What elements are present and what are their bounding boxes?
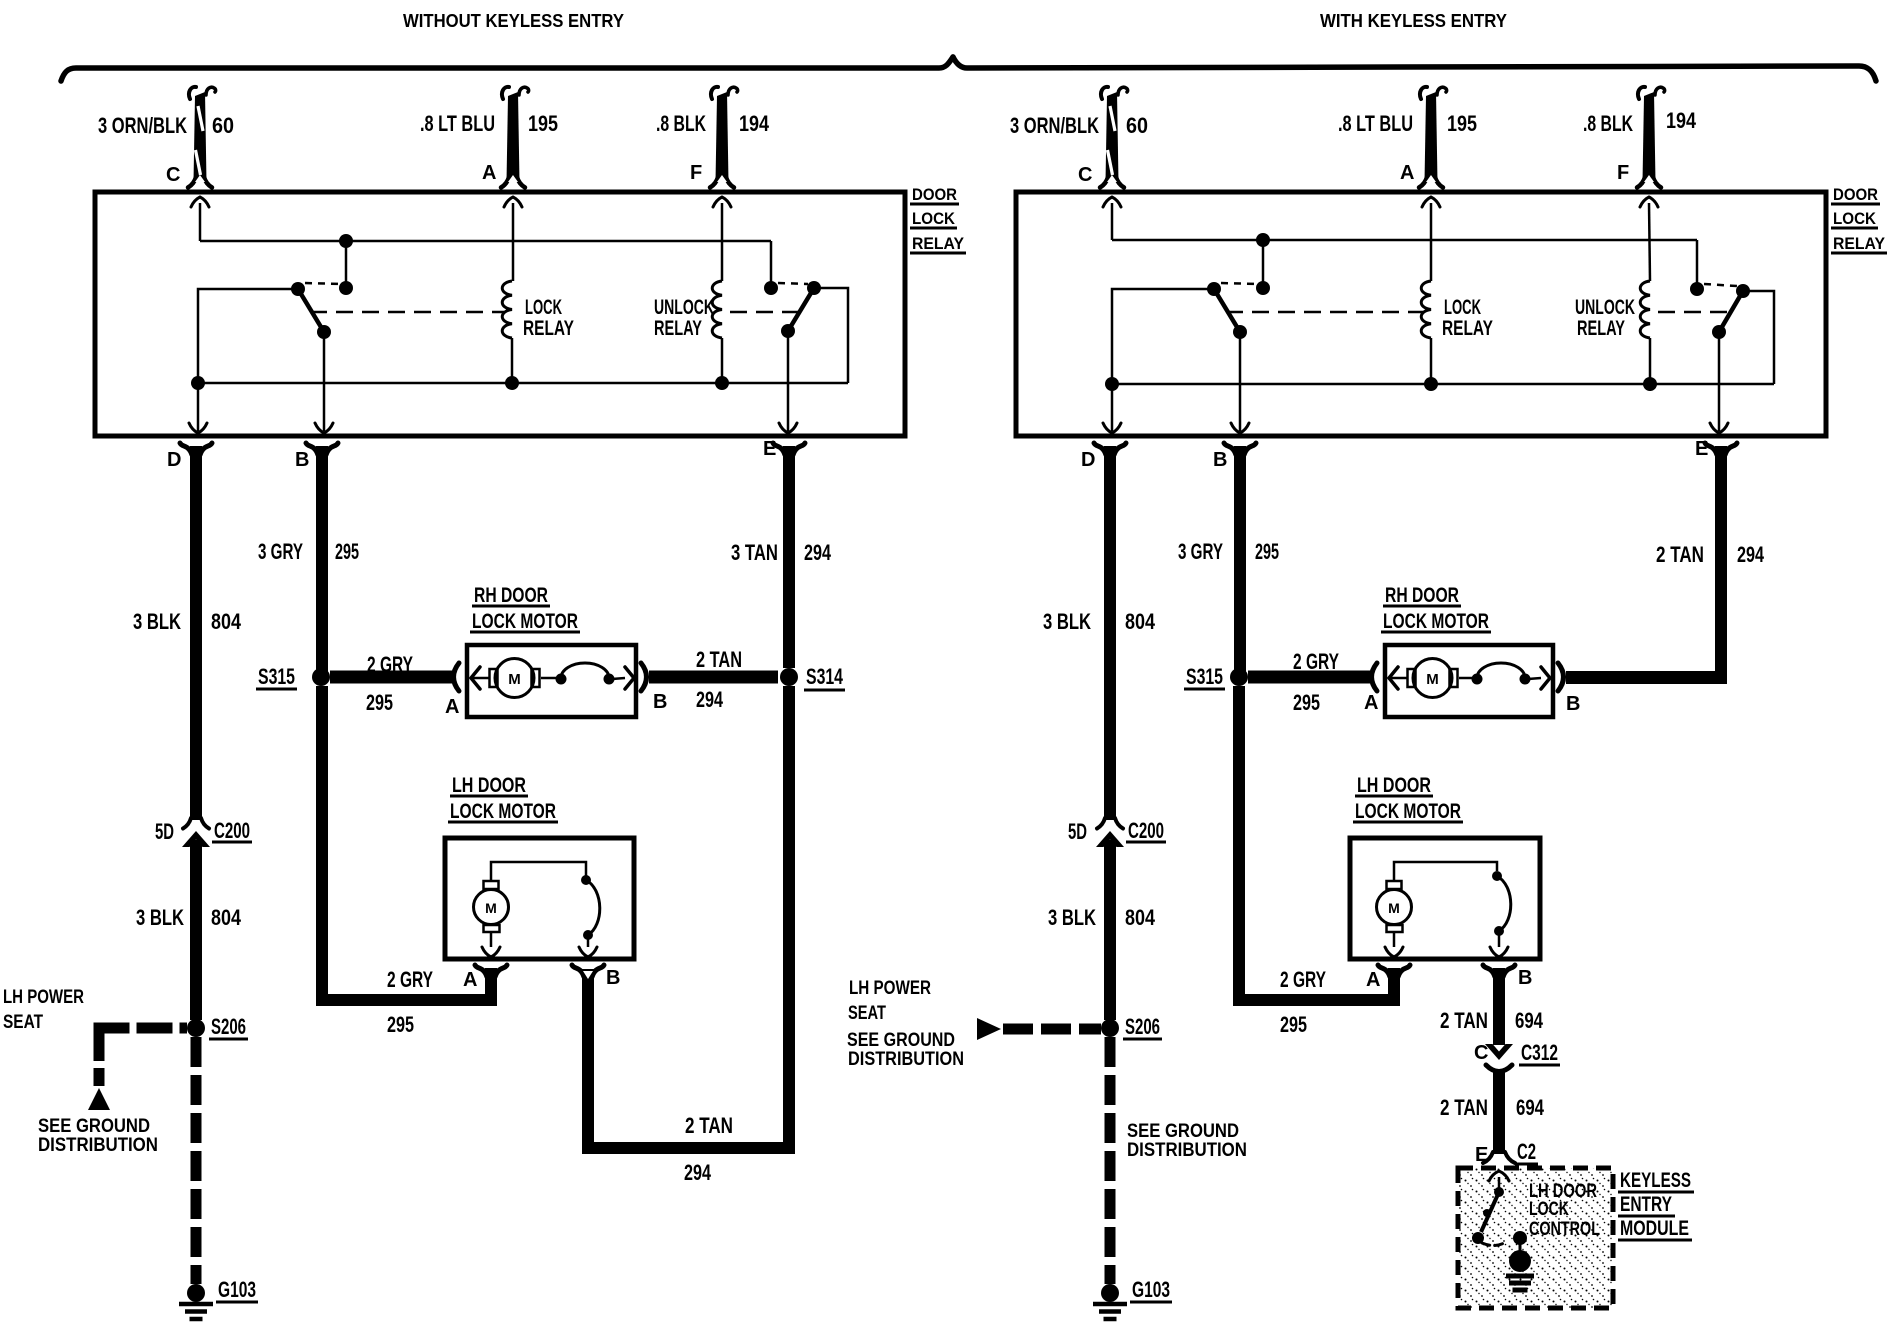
svg-text:LH POWER: LH POWER xyxy=(3,987,84,1008)
unlock-switch contact node (left relay) xyxy=(764,281,778,295)
lock relay coil (right) xyxy=(1421,281,1431,338)
svg-text:M: M xyxy=(485,900,497,916)
ground bus (right relay) xyxy=(1112,383,1774,386)
svg-text:295: 295 xyxy=(387,1012,414,1037)
svg-text:A: A xyxy=(1400,162,1414,184)
svg-text:MODULE: MODULE xyxy=(1620,1217,1689,1240)
svg-text:195: 195 xyxy=(1447,111,1477,136)
junction on C bus (right relay) xyxy=(1256,233,1270,247)
svg-text:UNLOCK: UNLOCK xyxy=(654,296,714,319)
connector C2 (right) xyxy=(1483,1152,1493,1163)
junction lock coil to ground bus (left) xyxy=(505,376,519,390)
connector cap at RH motor pin B (left) xyxy=(641,663,647,691)
svg-text:DISTRIBUTION: DISTRIBUTION xyxy=(848,1049,964,1070)
RH motor brushes (left) xyxy=(490,669,498,687)
svg-text:5D: 5D xyxy=(155,819,174,844)
lock relay coil (left) xyxy=(502,281,512,338)
wire: pivot feed to ground bus (left relay) xyxy=(814,288,848,383)
wire 295: 3 GRY segment (left) xyxy=(316,446,328,672)
wire: D feed to lock-switch pivot (right relay) xyxy=(1112,289,1214,384)
LH door lock motor box (right) xyxy=(1350,838,1540,959)
module internal ground (right) xyxy=(1519,1243,1522,1251)
unlock-switch blade (right relay) xyxy=(1719,291,1743,332)
wire: internal bus from C (right relay) xyxy=(1112,239,1697,242)
connector wire 194: .8 BLK into F (right) xyxy=(1643,92,1656,182)
wire 694: 2 TAN from C312 to C2 (right) xyxy=(1493,1072,1505,1154)
svg-text:RH DOOR: RH DOOR xyxy=(1385,584,1459,607)
svg-text:295: 295 xyxy=(335,539,359,564)
RH motor brushes (right) xyxy=(1408,669,1416,687)
svg-text:60: 60 xyxy=(212,113,234,138)
svg-text:UNLOCK: UNLOCK xyxy=(1575,296,1635,319)
wire: stub to lock-switch contact (left relay) xyxy=(345,241,348,288)
wire: pin D drop (left relay) xyxy=(197,383,200,431)
svg-text:SEAT: SEAT xyxy=(848,1003,886,1024)
svg-text:F: F xyxy=(690,162,702,184)
unlock-switch output node (right relay) xyxy=(1712,325,1726,339)
connector B below relay (right) xyxy=(1224,443,1236,455)
lock-switch output node (left relay) xyxy=(317,325,331,339)
svg-text:294: 294 xyxy=(684,1160,712,1185)
svg-text:3 GRY: 3 GRY xyxy=(258,539,303,564)
dashed mechanical linkage lock side (left) xyxy=(310,311,504,314)
svg-text:2 GRY: 2 GRY xyxy=(367,652,413,677)
svg-text:SEE GROUND: SEE GROUND xyxy=(38,1116,150,1137)
connector A below LH motor (right) xyxy=(1378,965,1390,977)
RH motor contact wire (right) xyxy=(1459,677,1473,680)
LH motor pin A arrow (left) xyxy=(490,932,493,947)
wire 804: 3 BLK upper segment (right) xyxy=(1104,446,1116,820)
RH motor jumper arc (left) xyxy=(561,663,609,678)
svg-text:294: 294 xyxy=(1737,542,1765,567)
connector cap at RH motor pin A (left) xyxy=(454,663,460,691)
connector E below relay (right) xyxy=(1705,443,1717,455)
svg-text:3 ORN/BLK: 3 ORN/BLK xyxy=(1010,113,1099,138)
splice S206 (left) xyxy=(187,1019,205,1037)
LH motor armature M (right) xyxy=(1377,890,1412,925)
LH motor top jumper wire (left) xyxy=(491,862,586,881)
svg-text:S315: S315 xyxy=(1186,664,1223,689)
connector B below LH motor (right) xyxy=(1483,965,1495,977)
svg-text:3 BLK: 3 BLK xyxy=(1048,905,1096,930)
wire: E wire below S314 down (left) xyxy=(783,686,795,1154)
connector D below relay (left) xyxy=(180,443,192,455)
svg-text:3 BLK: 3 BLK xyxy=(136,905,184,930)
wire: unlock-switch to pin E (right relay) xyxy=(1718,332,1721,431)
connector C312 (right) xyxy=(1485,1044,1513,1060)
svg-text:295: 295 xyxy=(1255,539,1279,564)
pin E exit arrow (left relay) xyxy=(779,423,797,433)
RH motor pin B arrow (left) xyxy=(625,667,634,689)
svg-text:F: F xyxy=(1617,162,1629,184)
dashed branch to LH power seat (left) xyxy=(94,1023,188,1034)
lock-switch throw dashes (left relay) xyxy=(305,283,341,284)
off-page arrow from LH power seat (right) xyxy=(977,1018,1001,1040)
junction lock coil to ground bus (right) xyxy=(1424,377,1438,391)
svg-text:3 BLK: 3 BLK xyxy=(133,609,181,634)
wire 804: 3 BLK lower segment (left) xyxy=(190,840,202,1020)
pin C entry arrow (right relay) xyxy=(1103,197,1121,207)
dashed branch from LH power seat (right) xyxy=(1003,1024,1101,1035)
lock control contact (right) xyxy=(1513,1231,1527,1245)
wire 294: 2 TAN from RH motor to pin E wire (right) xyxy=(1566,671,1727,684)
svg-text:.8 LT BLU: .8 LT BLU xyxy=(1338,111,1413,136)
door lock relay box (left) xyxy=(95,192,905,436)
svg-text:DOOR: DOOR xyxy=(912,185,957,204)
svg-text:2 GRY: 2 GRY xyxy=(1280,967,1326,992)
connector C200 (right) xyxy=(1097,818,1105,829)
unlock-switch contact node (right relay) xyxy=(1690,282,1704,296)
RH door lock motor box (left) xyxy=(467,645,636,717)
svg-text:RELAY: RELAY xyxy=(912,234,965,253)
lock control switch node (right) xyxy=(1494,1187,1504,1197)
svg-text:2 TAN: 2 TAN xyxy=(1440,1095,1488,1120)
svg-text:C2: C2 xyxy=(1517,1139,1536,1164)
wire: 3 GRY below S315 (right) xyxy=(1233,686,1245,1006)
svg-text:294: 294 xyxy=(696,687,724,712)
RH door lock motor box (right) xyxy=(1385,645,1553,717)
ground G103 (left) xyxy=(187,1284,205,1302)
connector wire 60: 3 ORN/BLK into C (left) xyxy=(194,92,207,182)
svg-text:B: B xyxy=(1213,449,1227,471)
svg-text:C: C xyxy=(1078,164,1092,186)
lock-switch pivot (left relay) xyxy=(291,282,305,296)
wire: C bus drop to unlock-switch contact (left relay) xyxy=(770,241,773,288)
connector wire 195: .8 LT BLU into A (right) xyxy=(1425,92,1438,182)
svg-text:E: E xyxy=(1695,438,1708,460)
svg-text:WITH KEYLESS ENTRY: WITH KEYLESS ENTRY xyxy=(1320,10,1508,31)
svg-text:RELAY: RELAY xyxy=(1833,234,1886,253)
wire: D feed to lock-switch pivot (left relay) xyxy=(198,289,298,383)
lock-switch contact node (right relay) xyxy=(1256,281,1270,295)
svg-text:LOCK MOTOR: LOCK MOTOR xyxy=(450,800,556,823)
svg-text:DISTRIBUTION: DISTRIBUTION xyxy=(1127,1140,1247,1161)
svg-text:SEAT: SEAT xyxy=(3,1012,43,1033)
LH motor pin B arrow (left) xyxy=(587,938,590,947)
wire: C bus drop to unlock-switch contact (right relay) xyxy=(1696,240,1699,289)
dashed mechanical linkage unlock side (right) xyxy=(1658,311,1730,314)
wire 694: 2 TAN from LH motor B to C312 (right) xyxy=(1493,968,1505,1045)
svg-text:2 TAN: 2 TAN xyxy=(696,647,742,672)
junction on C bus (left relay) xyxy=(339,234,353,248)
keyless entry module box (right) xyxy=(1458,1168,1613,1308)
svg-text:S206: S206 xyxy=(211,1014,246,1039)
svg-text:S315: S315 xyxy=(258,664,295,689)
svg-text:804: 804 xyxy=(1125,905,1156,930)
wire 294: 2 TAN horizontal run (left) xyxy=(582,1142,795,1154)
svg-text:RH DOOR: RH DOOR xyxy=(474,584,548,607)
svg-text:RELAY: RELAY xyxy=(1577,317,1625,340)
unlock-switch output node (left relay) xyxy=(781,324,795,338)
svg-text:C: C xyxy=(166,164,180,186)
svg-text:804: 804 xyxy=(211,609,242,634)
pin D exit arrow (right relay) xyxy=(1103,423,1121,433)
svg-text:RELAY: RELAY xyxy=(654,317,702,340)
svg-text:LOCK: LOCK xyxy=(525,296,562,319)
splice S206 (right) xyxy=(1101,1019,1119,1037)
svg-text:M: M xyxy=(508,671,521,688)
svg-text:E: E xyxy=(1475,1144,1488,1166)
LH motor pin A arrow (right) xyxy=(1393,932,1396,947)
LH motor jumper arc (left) xyxy=(586,880,600,935)
unlock relay coil (right) xyxy=(1640,281,1650,338)
pin D exit arrow (left relay) xyxy=(189,423,207,433)
svg-text:2 TAN: 2 TAN xyxy=(1440,1008,1488,1033)
splice S314 (left) xyxy=(780,668,798,686)
svg-text:C200: C200 xyxy=(214,818,250,843)
connector B below relay (left) xyxy=(306,443,318,455)
RH motor armature M (left) xyxy=(495,659,534,698)
svg-text:694: 694 xyxy=(1515,1008,1544,1033)
connector cap at RH motor pin B (right) xyxy=(1558,663,1564,691)
svg-text:RELAY: RELAY xyxy=(1442,317,1493,340)
pin C entry arrow (left relay) xyxy=(191,197,209,207)
lock-switch output node (right relay) xyxy=(1233,325,1247,339)
wire: stub to lock-switch contact (right relay) xyxy=(1262,240,1265,288)
LH motor pin B arrow (right) xyxy=(1498,934,1501,947)
wire 294: 3 TAN segment (left) xyxy=(783,446,795,668)
svg-text:C200: C200 xyxy=(1128,818,1164,843)
svg-text:2 GRY: 2 GRY xyxy=(1293,649,1339,674)
pin A entry arrow (right relay) xyxy=(1422,197,1440,207)
svg-text:S206: S206 xyxy=(1125,1014,1160,1039)
wire: lock-switch to pin B (left relay) xyxy=(323,332,326,431)
svg-text:A: A xyxy=(463,969,477,991)
connector D below relay (right) xyxy=(1094,443,1106,455)
bracket over left (without keyless) half xyxy=(61,57,953,81)
svg-text:A: A xyxy=(1366,969,1380,991)
wire: pivot feed to ground bus (right relay) xyxy=(1743,291,1774,384)
connector wire 194: .8 BLK into F (left) xyxy=(716,92,729,182)
connector B below LH motor (left) xyxy=(572,965,584,977)
wire: pin D drop (right relay) xyxy=(1111,384,1114,431)
svg-text:804: 804 xyxy=(1125,609,1156,634)
wire 295: 2 GRY to RH door lock motor (right) xyxy=(1248,671,1370,684)
svg-text:60: 60 xyxy=(1126,113,1148,138)
svg-text:295: 295 xyxy=(1280,1012,1307,1037)
RH motor contact wire (left) xyxy=(541,677,557,680)
RH motor pin A arrow (left) xyxy=(471,667,480,689)
svg-text:.8 BLK: .8 BLK xyxy=(1583,111,1633,136)
svg-text:C: C xyxy=(1474,1042,1488,1064)
lock-switch blade (left relay) xyxy=(298,289,324,332)
unlock-switch throw dashes (right relay) xyxy=(1704,284,1737,286)
wire 804: 3 BLK lower segment (right) xyxy=(1104,840,1116,1020)
pin B exit arrow (left relay) xyxy=(315,423,333,433)
svg-text:B: B xyxy=(1566,693,1580,715)
svg-text:295: 295 xyxy=(1293,690,1320,715)
svg-text:RELAY: RELAY xyxy=(523,317,574,340)
LH motor brushes (left) xyxy=(484,881,499,889)
svg-text:804: 804 xyxy=(211,905,242,930)
wire 294: 2 TAN segment (right) xyxy=(1715,446,1727,684)
svg-text:SEE GROUND: SEE GROUND xyxy=(847,1030,955,1051)
lock control pivot (right) xyxy=(1472,1232,1484,1244)
svg-text:B: B xyxy=(606,967,620,989)
svg-text:WITHOUT KEYLESS ENTRY: WITHOUT KEYLESS ENTRY xyxy=(403,10,625,31)
module entry arrow E (right) xyxy=(1489,1171,1509,1181)
splice S315 (right) xyxy=(1230,668,1248,686)
svg-text:A: A xyxy=(482,162,496,184)
svg-text:3 ORN/BLK: 3 ORN/BLK xyxy=(98,113,187,138)
wire: lock-switch to pin B (right relay) xyxy=(1239,332,1242,431)
dashed mechanical linkage lock side (right) xyxy=(1226,311,1423,314)
svg-text:5D: 5D xyxy=(1068,819,1087,844)
wire 295: 2 GRY run to LH motor A (right) xyxy=(1388,968,1400,1006)
wire 804: 3 BLK upper segment (left) xyxy=(190,446,202,820)
svg-text:G103: G103 xyxy=(1132,1277,1170,1302)
unlock-switch throw dashes (left relay) xyxy=(778,283,808,284)
svg-text:B: B xyxy=(295,449,309,471)
svg-text:194: 194 xyxy=(739,111,770,136)
LH motor jumper arc (right) xyxy=(1497,876,1511,931)
svg-text:C312: C312 xyxy=(1521,1040,1558,1065)
svg-text:A: A xyxy=(445,696,459,718)
RH motor pin B arrow (right) xyxy=(1541,667,1550,689)
door lock relay box (right) xyxy=(1016,192,1826,436)
wire: 3 GRY below S315 (left) xyxy=(316,686,328,1006)
unlock-switch blade (left relay) xyxy=(788,288,814,331)
svg-text:SEE GROUND: SEE GROUND xyxy=(1127,1121,1239,1142)
connector C200 (left) xyxy=(183,818,191,829)
connector E below relay (left) xyxy=(773,443,785,455)
connector A below LH motor (left) xyxy=(475,965,487,977)
wire 295: 2 GRY run to LH motor A (left) xyxy=(485,968,497,1006)
svg-text:LOCK: LOCK xyxy=(1833,209,1877,228)
svg-text:2 GRY: 2 GRY xyxy=(387,967,433,992)
LH door lock motor box (left) xyxy=(445,838,634,959)
wire: LH motor B drop (left) xyxy=(582,969,594,1154)
dashed mechanical linkage unlock side (left) xyxy=(730,311,800,314)
LH motor top jumper wire (right) xyxy=(1394,862,1497,881)
svg-text:.8 BLK: .8 BLK xyxy=(656,111,706,136)
svg-text:B: B xyxy=(653,691,667,713)
svg-text:LOCK MOTOR: LOCK MOTOR xyxy=(1383,610,1489,633)
svg-text:195: 195 xyxy=(528,111,558,136)
svg-text:DISTRIBUTION: DISTRIBUTION xyxy=(38,1135,158,1156)
pin A entry arrow (left relay) xyxy=(504,197,522,207)
svg-text:D: D xyxy=(1081,449,1095,471)
svg-text:B: B xyxy=(1518,967,1532,989)
svg-text:LH DOOR: LH DOOR xyxy=(452,774,526,797)
ground bus (left relay) xyxy=(198,382,848,385)
connector cap at RH motor pin A (right) xyxy=(1372,663,1378,691)
pin B exit arrow (right relay) xyxy=(1231,423,1249,433)
lock control blade (right) xyxy=(1481,1192,1499,1232)
lock-switch contact node (left relay) xyxy=(339,281,353,295)
LH motor armature M (left) xyxy=(474,890,509,925)
wire: unlock-switch to pin E (left relay) xyxy=(787,331,790,431)
svg-text:3 BLK: 3 BLK xyxy=(1043,609,1091,634)
svg-text:KEYLESS: KEYLESS xyxy=(1620,1169,1691,1192)
svg-text:LOCK: LOCK xyxy=(912,209,956,228)
wire 295: 3 GRY segment (right) xyxy=(1234,446,1246,672)
svg-text:A: A xyxy=(1364,692,1378,714)
junction D on ground bus (left relay) xyxy=(191,376,205,390)
svg-text:3 TAN: 3 TAN xyxy=(731,540,778,565)
pin F entry arrow (left relay) xyxy=(713,197,731,207)
svg-text:DOOR: DOOR xyxy=(1833,185,1878,204)
pin E exit arrow (right relay) xyxy=(1710,423,1728,433)
off-page arrow to ground distribution (left) xyxy=(88,1088,110,1110)
dashed wire S206 to G103 (right) xyxy=(1105,1037,1116,1284)
svg-text:G103: G103 xyxy=(218,1277,256,1302)
svg-text:M: M xyxy=(1388,900,1400,916)
unlock-switch pivot (right relay) xyxy=(1736,284,1750,298)
svg-text:LH POWER: LH POWER xyxy=(849,978,931,999)
svg-text:.8 LT BLU: .8 LT BLU xyxy=(420,111,495,136)
bracket over right (with keyless) half xyxy=(953,57,1876,81)
RH motor jumper arc (right) xyxy=(1477,663,1525,678)
dashed wire S206 to G103 (left) xyxy=(191,1037,202,1284)
svg-text:ENTRY: ENTRY xyxy=(1620,1193,1672,1216)
ground G103 (right) xyxy=(1101,1284,1119,1302)
svg-text:2 TAN: 2 TAN xyxy=(1656,542,1704,567)
unlock relay coil (left) xyxy=(712,281,722,338)
pin F entry arrow (right relay) xyxy=(1640,197,1658,207)
svg-text:M: M xyxy=(1426,671,1439,688)
lock-switch throw dashes (right relay) xyxy=(1221,283,1257,284)
lock-switch blade (right relay) xyxy=(1214,289,1240,332)
svg-text:D: D xyxy=(167,449,181,471)
lock-switch pivot (right relay) xyxy=(1207,282,1221,296)
svg-text:S314: S314 xyxy=(806,664,844,689)
svg-text:LOCK: LOCK xyxy=(1529,1199,1569,1220)
svg-text:294: 294 xyxy=(804,540,832,565)
svg-text:LOCK MOTOR: LOCK MOTOR xyxy=(472,610,578,633)
svg-text:LH DOOR: LH DOOR xyxy=(1357,774,1431,797)
junction unlock coil to ground bus (right) xyxy=(1643,377,1657,391)
RH motor armature M (right) xyxy=(1413,659,1452,698)
svg-text:2 TAN: 2 TAN xyxy=(685,1113,733,1138)
junction D on ground bus (right relay) xyxy=(1105,377,1119,391)
svg-text:694: 694 xyxy=(1516,1095,1545,1120)
LH motor brushes (right) xyxy=(1387,881,1402,889)
junction unlock coil to ground bus (left) xyxy=(715,376,729,390)
connector wire 195: .8 LT BLU into A (left) xyxy=(507,92,520,182)
svg-text:194: 194 xyxy=(1666,108,1697,133)
svg-text:E: E xyxy=(763,438,776,460)
wire 295: 2 GRY to RH door lock motor (left) xyxy=(330,671,452,684)
wire 294: 2 TAN from RH motor to S314 (left) xyxy=(649,671,778,684)
svg-text:CONTROL: CONTROL xyxy=(1529,1219,1600,1240)
unlock-switch pivot (left relay) xyxy=(807,281,821,295)
wire: internal bus from C (left relay) xyxy=(200,240,771,243)
svg-text:LOCK MOTOR: LOCK MOTOR xyxy=(1355,800,1461,823)
svg-text:LOCK: LOCK xyxy=(1444,296,1481,319)
connector wire 60: 3 ORN/BLK into C (right) xyxy=(1106,92,1119,182)
svg-text:295: 295 xyxy=(366,690,393,715)
splice S315 (left) xyxy=(312,668,330,686)
svg-text:3 GRY: 3 GRY xyxy=(1178,539,1223,564)
RH motor pin A arrow (right) xyxy=(1389,667,1398,689)
